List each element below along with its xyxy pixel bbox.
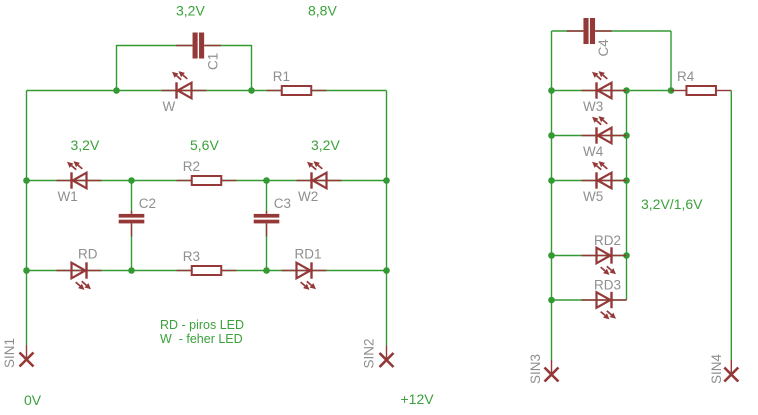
svg-text:RD - piros LED: RD - piros LED — [160, 318, 244, 332]
svg-text:SIN4: SIN4 — [709, 353, 724, 384]
svg-text:+12V: +12V — [401, 391, 435, 407]
svg-text:R2: R2 — [183, 159, 200, 174]
svg-text:3,2V/1,6V: 3,2V/1,6V — [641, 196, 703, 212]
svg-text:RD2: RD2 — [594, 233, 621, 248]
svg-text:C3: C3 — [274, 196, 291, 211]
svg-text:5,6V: 5,6V — [190, 137, 219, 153]
svg-text:W4: W4 — [583, 144, 604, 159]
svg-text:RD: RD — [78, 247, 98, 262]
svg-text:C1: C1 — [206, 53, 221, 70]
svg-text:W1: W1 — [58, 189, 78, 204]
svg-text:W - feher LED: W - feher LED — [160, 332, 243, 346]
svg-text:0V: 0V — [24, 392, 42, 408]
svg-text:3,2V: 3,2V — [311, 137, 340, 153]
svg-text:8,8V: 8,8V — [308, 3, 337, 19]
svg-text:R3: R3 — [183, 249, 200, 264]
svg-text:SIN2: SIN2 — [362, 338, 377, 368]
svg-text:3,2V: 3,2V — [176, 3, 205, 19]
svg-text:R1: R1 — [273, 69, 290, 84]
svg-text:W5: W5 — [583, 189, 603, 204]
svg-text:W2: W2 — [298, 189, 318, 204]
svg-text:W3: W3 — [583, 99, 603, 114]
svg-text:SIN3: SIN3 — [528, 354, 543, 384]
svg-text:RD3: RD3 — [594, 278, 621, 293]
svg-text:C4: C4 — [596, 39, 611, 57]
svg-text:R4: R4 — [677, 69, 695, 84]
svg-text:3,2V: 3,2V — [71, 137, 100, 153]
svg-text:C2: C2 — [139, 196, 156, 211]
svg-text:W: W — [163, 99, 176, 114]
svg-text:SIN1: SIN1 — [2, 338, 17, 368]
svg-text:RD1: RD1 — [295, 247, 322, 262]
